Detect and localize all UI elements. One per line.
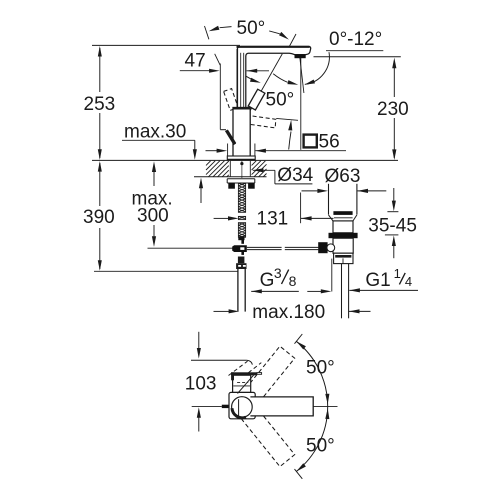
svg-text:35-45: 35-45	[368, 215, 417, 236]
svg-text:56: 56	[319, 131, 340, 152]
svg-text:max.180: max.180	[252, 302, 325, 323]
svg-text:3: 3	[274, 265, 282, 281]
svg-text:G: G	[260, 270, 275, 291]
svg-text:50°: 50°	[306, 436, 335, 457]
svg-text:Ø63: Ø63	[325, 166, 361, 187]
svg-text:103: 103	[185, 373, 217, 394]
svg-text:4: 4	[405, 274, 412, 289]
svg-text:47: 47	[185, 50, 206, 71]
svg-text:0°-12°: 0°-12°	[329, 29, 382, 50]
svg-text:50°: 50°	[237, 18, 266, 39]
svg-text:50°: 50°	[266, 90, 295, 111]
svg-text:50°: 50°	[306, 358, 335, 379]
svg-text:8: 8	[289, 273, 297, 289]
svg-text:300: 300	[137, 206, 169, 227]
svg-text:1: 1	[394, 266, 401, 281]
svg-text:390: 390	[83, 207, 115, 228]
svg-text:G1: G1	[365, 270, 390, 291]
svg-text:Ø34: Ø34	[277, 165, 313, 186]
svg-text:230: 230	[377, 99, 409, 120]
svg-text:max.30: max.30	[124, 122, 186, 143]
svg-text:253: 253	[84, 94, 116, 115]
svg-text:131: 131	[257, 208, 289, 229]
